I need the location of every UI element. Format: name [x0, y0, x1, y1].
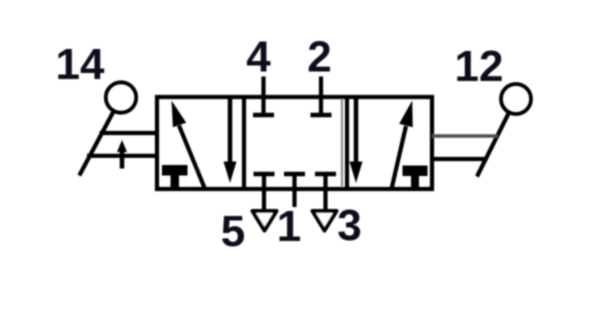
port 5 exhaust triangle: [253, 211, 277, 231]
right lever: lower link wire: [432, 157, 487, 161]
port 1 external wire: [292, 189, 296, 207]
right lever: handle stick: [477, 113, 509, 177]
divider between centre and right box: [345, 97, 349, 189]
port 3 exhaust wire: [323, 189, 327, 210]
port 5 exhaust wire: [262, 189, 266, 210]
left lever: lower link wire: [87, 154, 157, 158]
left lever: small up arrowhead: [117, 140, 127, 152]
right box: diagonal arrowhead: [399, 101, 413, 128]
svg-text:12: 12: [455, 42, 504, 91]
svg-text:1: 1: [277, 202, 301, 251]
left box: blocked port T symbol: [162, 165, 188, 191]
right box: diagonal flow arrow shaft: [392, 126, 407, 189]
right box: vertical down-arrow shaft: [354, 97, 359, 166]
port 4 external wire: [261, 77, 265, 98]
svg-text:2: 2: [307, 33, 331, 82]
left box: diagonal arrowhead: [172, 101, 187, 128]
valve body outer box: [157, 97, 432, 189]
right box: blocked port T symbol: [403, 166, 428, 192]
left box: down arrowhead: [224, 162, 237, 184]
centre box: port 3 stub T-bar: [315, 172, 336, 177]
svg-text:5: 5: [221, 207, 245, 256]
centre box: port 5 internal stub: [262, 176, 266, 189]
centre box: port 2 stub T-bar: [311, 113, 332, 118]
centre box: port 1 internal stub: [292, 176, 296, 189]
svg-text:4: 4: [246, 33, 271, 82]
ghost line left of divider 2: [341, 97, 343, 189]
divider between left and centre box: [242, 97, 246, 189]
svg-text:14: 14: [56, 40, 105, 89]
svg-text:3: 3: [337, 201, 361, 250]
centre box: port 2 internal stub: [319, 97, 323, 113]
port 2 external wire: [319, 77, 323, 98]
centre box: port 1 stub T-bar: [284, 172, 305, 177]
left box: diagonal flow arrow shaft: [179, 126, 205, 190]
left lever: small up arrow shaft: [120, 151, 125, 169]
centre box: port 4 stub T-bar: [253, 113, 274, 118]
right lever: knob circle: [501, 84, 531, 114]
port 3 exhaust triangle: [313, 211, 337, 231]
left lever: upper link wire: [100, 131, 158, 135]
left lever: knob circle: [106, 82, 136, 112]
centre box: port 3 internal stub: [323, 176, 327, 189]
left box: vertical down-arrow shaft: [228, 97, 233, 166]
right lever: upper link wire: [432, 134, 498, 137]
left lever: handle stick: [79, 111, 114, 176]
centre box: port 4 internal stub: [261, 97, 265, 113]
centre box: port 5 stub T-bar: [254, 172, 275, 177]
right box: down arrowhead: [350, 162, 363, 184]
